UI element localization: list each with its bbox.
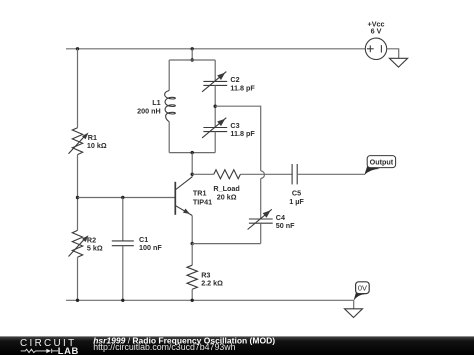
ground bottom bbox=[345, 309, 363, 318]
wire tank box left upper bbox=[168, 60, 170, 91]
wire tap horizontal bbox=[215, 106, 261, 171]
svg-text:0V: 0V bbox=[358, 284, 367, 293]
wire R1 to base node bbox=[77, 155, 79, 231]
wire bottom rail bbox=[66, 299, 354, 301]
node bottom rail R2 junction bbox=[76, 299, 79, 302]
capacitor C1 bbox=[112, 241, 134, 246]
wire hop over output wire bbox=[261, 171, 265, 179]
svg-text:http://circuitlab.com/c3ucd7b4: http://circuitlab.com/c3ucd7b4793wh bbox=[93, 342, 235, 352]
svg-text:11.8 pF: 11.8 pF bbox=[230, 129, 255, 138]
wire C1 bottom branch bbox=[122, 246, 124, 301]
wire emitter to R3 bbox=[191, 244, 193, 266]
wire C4 bottom bbox=[260, 223, 262, 243]
wire tank box top bbox=[169, 59, 215, 61]
svg-text:6 V: 6 V bbox=[371, 27, 382, 36]
wire 0V ground stub bbox=[353, 300, 355, 309]
svg-text:LAB: LAB bbox=[58, 345, 79, 355]
wire tank box right lower bbox=[214, 132, 216, 153]
wire Vcc to ground bbox=[387, 49, 399, 59]
wire R2 to bottom rail bbox=[77, 257, 79, 300]
wire emitter horizontal bbox=[192, 243, 261, 245]
wire tank box right upper bbox=[214, 60, 216, 81]
transistor TR1 bbox=[175, 177, 192, 216]
svg-text:100 nF: 100 nF bbox=[139, 243, 162, 252]
resistor R3 bbox=[187, 265, 197, 289]
wire C1 top branch bbox=[122, 198, 124, 241]
node Vcc rail left junction bbox=[76, 47, 79, 50]
node tank tap junction bbox=[214, 105, 217, 108]
node bottom rail R3 junction bbox=[191, 299, 194, 302]
svg-text:TR1: TR1 bbox=[193, 188, 207, 197]
svg-text:TIP41: TIP41 bbox=[193, 198, 212, 207]
capacitor C5 bbox=[292, 164, 297, 184]
node Output flag bbox=[364, 156, 395, 175]
node emitter junction bbox=[191, 242, 194, 245]
logo resistor-diode line bbox=[21, 349, 58, 353]
resistor R_Load bbox=[214, 170, 241, 179]
node 0V flag bbox=[354, 282, 370, 301]
wire top rail bbox=[66, 48, 365, 50]
svg-text:20 kΩ: 20 kΩ bbox=[217, 193, 237, 202]
wire tank box right middle bbox=[214, 85, 216, 127]
capacitor C4 bbox=[248, 209, 273, 229]
node Vcc rail tank junction bbox=[191, 47, 194, 50]
wire left branch vertical bbox=[77, 49, 79, 128]
wire hop to C4 bbox=[260, 178, 262, 219]
svg-text:11.8 pF: 11.8 pF bbox=[230, 83, 255, 92]
svg-text:50 nF: 50 nF bbox=[276, 221, 295, 230]
svg-text:10 kΩ: 10 kΩ bbox=[87, 141, 107, 150]
voltage source V1 bbox=[365, 38, 386, 59]
node tank top junction bbox=[191, 58, 194, 61]
svg-text:2.2 kΩ: 2.2 kΩ bbox=[201, 278, 223, 287]
node C1 top junction bbox=[121, 196, 124, 199]
node base-divider junction bbox=[76, 196, 79, 199]
inductor L1 bbox=[165, 91, 176, 122]
wire tank bottom to collector bbox=[191, 153, 193, 177]
node tank bottom junction bbox=[191, 151, 194, 154]
svg-text:5 kΩ: 5 kΩ bbox=[87, 244, 103, 253]
wire tank box left lower bbox=[168, 122, 170, 153]
node bottom rail C1 junction bbox=[121, 299, 124, 302]
ground top bbox=[389, 58, 407, 67]
wire emitter down bbox=[191, 216, 193, 244]
wire C5 to output bbox=[297, 173, 364, 175]
wire R3 to bottom rail bbox=[191, 289, 193, 300]
capacitor C2 bbox=[202, 72, 227, 92]
footer bar bbox=[0, 335, 474, 355]
capacitor C3 bbox=[202, 118, 227, 138]
node collector junction bbox=[191, 173, 194, 176]
svg-text:Output: Output bbox=[370, 158, 394, 167]
wire tank drop from rail bbox=[191, 49, 193, 60]
svg-text:200 nH: 200 nH bbox=[137, 106, 161, 115]
wire tank box bottom bbox=[169, 152, 215, 154]
resistor R2 bbox=[69, 230, 89, 257]
wire R_Load to C5 bbox=[240, 173, 292, 175]
wire R_Load left bbox=[192, 173, 214, 175]
svg-text:1 µF: 1 µF bbox=[289, 197, 304, 206]
wire base wire bbox=[78, 197, 176, 199]
resistor R1 bbox=[69, 128, 89, 155]
